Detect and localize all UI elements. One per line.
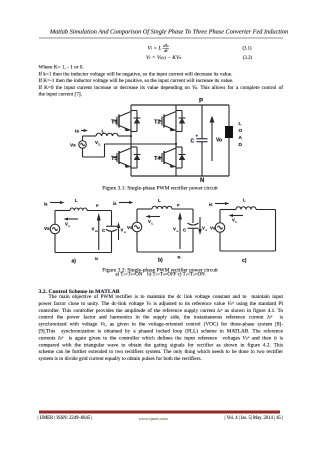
svg-text:Is: Is bbox=[75, 129, 79, 135]
svg-text:+: + bbox=[196, 134, 199, 139]
svg-text:T2: T2 bbox=[154, 120, 161, 126]
svg-text:Vs: Vs bbox=[127, 225, 133, 230]
svg-text:P: P bbox=[199, 99, 203, 105]
svg-text:L: L bbox=[239, 121, 242, 127]
svg-text:Vs: Vs bbox=[44, 226, 50, 231]
svg-text:Vs: Vs bbox=[210, 226, 216, 231]
svg-text:N: N bbox=[95, 256, 98, 261]
svg-text:c: c bbox=[206, 228, 208, 232]
svg-text:N: N bbox=[178, 255, 181, 260]
svg-text:Vo: Vo bbox=[216, 138, 222, 144]
svg-text:P: P bbox=[96, 203, 99, 208]
svg-text:L: L bbox=[69, 224, 71, 228]
svg-text:is: is bbox=[44, 202, 48, 207]
svg-text:T1: T1 bbox=[111, 120, 119, 126]
svg-text:L: L bbox=[75, 198, 78, 203]
svg-text:Vs: Vs bbox=[70, 143, 76, 149]
svg-text:is: is bbox=[113, 201, 117, 206]
svg-text:o: o bbox=[177, 229, 179, 233]
svg-text:a): a) bbox=[72, 259, 77, 265]
svg-text:P: P bbox=[177, 203, 180, 208]
svg-text:L: L bbox=[243, 198, 246, 203]
svg-text:C: C bbox=[102, 228, 106, 233]
svg-text:L: L bbox=[158, 198, 161, 203]
svg-text:N: N bbox=[200, 178, 204, 184]
svg-text:is: is bbox=[209, 202, 213, 207]
svg-text:D: D bbox=[239, 142, 243, 148]
svg-text:o: o bbox=[124, 230, 126, 234]
svg-text:L: L bbox=[99, 143, 101, 147]
svg-text:C: C bbox=[191, 139, 195, 145]
svg-text:c): c) bbox=[242, 258, 247, 264]
svg-text:C: C bbox=[183, 228, 187, 233]
svg-text:A: A bbox=[239, 135, 243, 141]
svg-text:O: O bbox=[239, 128, 243, 134]
svg-text:T3: T3 bbox=[111, 156, 118, 162]
svg-text:L: L bbox=[236, 220, 238, 224]
svg-text:T4: T4 bbox=[154, 156, 162, 162]
svg-text:L: L bbox=[102, 129, 105, 135]
svg-text:in: in bbox=[95, 229, 98, 233]
svg-text:L: L bbox=[152, 222, 154, 226]
svg-text:b): b) bbox=[158, 258, 163, 264]
